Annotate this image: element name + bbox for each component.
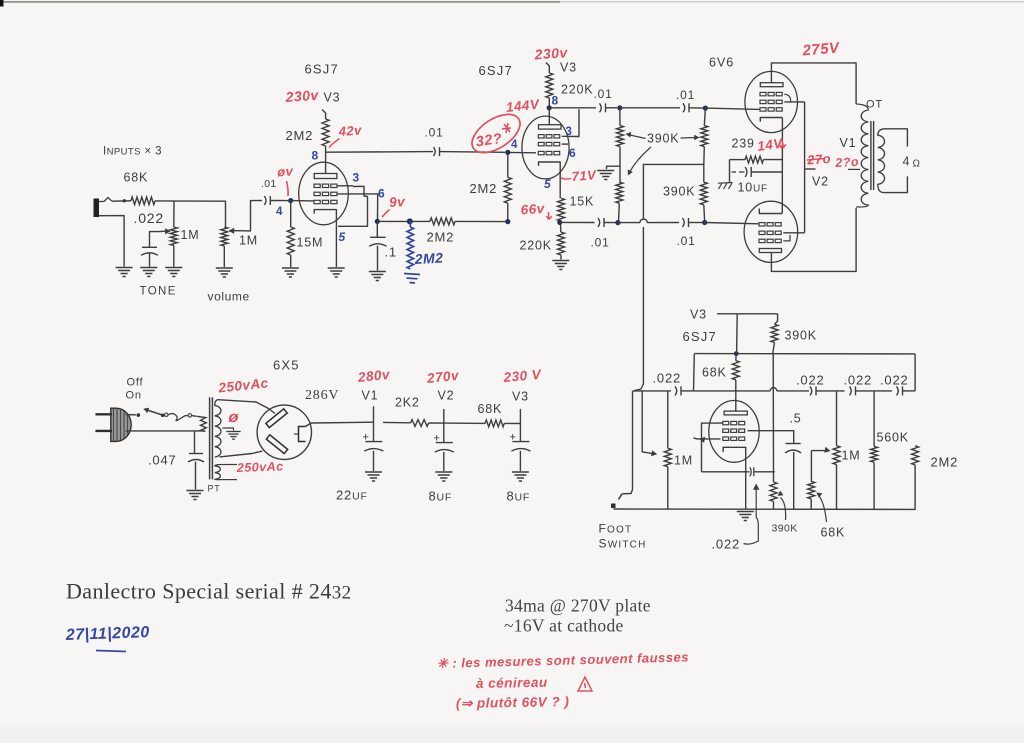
svg-text:1M: 1M (239, 234, 258, 248)
svg-text:PT: PT (208, 484, 221, 494)
svg-text:8: 8 (552, 94, 559, 108)
svg-text:68K: 68K (478, 402, 503, 416)
svg-text:~16V at cathode: ~16V at cathode (504, 616, 624, 636)
wire: V3c row1 to cathode rail (702, 423, 723, 472)
svg-text:TONE: TONE (140, 286, 177, 298)
svg-text:3: 3 (353, 171, 360, 185)
resistor 2M2 plate V3a (325, 146, 327, 174)
red circled 32? (465, 107, 526, 161)
plate bar V3c (724, 411, 747, 415)
capacitor 10UF (729, 160, 731, 172)
tube 6V6 V2 envelope (744, 201, 798, 262)
capacitor .5 (748, 431, 794, 444)
capacitor 22UF V1 (373, 422, 375, 441)
svg-text:230v: 230v (284, 87, 320, 105)
6X5 plate 1 (266, 409, 287, 428)
svg-text:4: 4 (276, 206, 283, 218)
svg-text:.022: .022 (880, 373, 909, 388)
cathode V3c (723, 447, 746, 509)
node: 2M2 junction (407, 218, 413, 224)
svg-text:V3: V3 (690, 308, 707, 322)
svg-text:2M2: 2M2 (427, 230, 455, 245)
grid row1 V3c (723, 421, 729, 424)
svg-text:volume: volume (208, 290, 250, 304)
wire: V2 plate to OT (771, 208, 856, 271)
svg-text:68K: 68K (821, 526, 846, 540)
capacitor .01 lower-left (598, 218, 600, 227)
wire: grid to tube V3b (508, 151, 536, 153)
svg-text:à cénireau: à cénireau (476, 675, 548, 691)
svg-text:68K: 68K (124, 171, 149, 185)
svg-text:+: + (363, 432, 370, 444)
svg-text:.01: .01 (676, 88, 695, 102)
resistor 220K plate V3b (546, 73, 553, 98)
grid row2 V3b (538, 142, 544, 145)
svg-text:Off: Off (127, 377, 144, 389)
wire: top to upper 6V6 (620, 107, 680, 109)
wire: grid node to tube V3a (291, 200, 314, 202)
svg-text:560K: 560K (877, 431, 909, 445)
potentiometer 1M tremolo rate (836, 391, 838, 446)
wire: switch squiggle (168, 414, 188, 421)
wire: cathode rail tremolo (702, 471, 750, 473)
svg-text:6: 6 (569, 146, 576, 160)
speaker load 4 ohm (884, 129, 908, 147)
wire: 9v node to 2M2 (377, 220, 430, 222)
capacitor .022 #3 (850, 386, 852, 395)
svg-text:275V: 275V (801, 39, 842, 59)
svg-text:2K2: 2K2 (395, 396, 420, 410)
potentiometer 390K tremolo (773, 472, 775, 482)
ground: V3 cap (512, 471, 529, 473)
svg-text:.022: .022 (134, 210, 164, 226)
grid row3 V3b (538, 151, 544, 154)
svg-text:390K: 390K (647, 132, 679, 146)
PT core (209, 397, 211, 479)
mains plug (111, 408, 131, 441)
svg-text:9v: 9v (389, 194, 407, 210)
svg-text:.01: .01 (591, 236, 610, 250)
svg-text:Danlectro Special serial #: Danlectro Special serial # 2432 (66, 579, 352, 604)
capacitor .01 coupling (264, 196, 266, 205)
grid row1 6V6 V1 (760, 92, 766, 95)
wire: V3 feed drop (736, 314, 739, 354)
wire: V3b pin6 stub (562, 143, 568, 145)
node: 68K junction (734, 351, 739, 356)
tube 6V6 V1 envelope (745, 71, 798, 132)
wire: tremolo top rail (694, 353, 915, 355)
svg-text:2M2: 2M2 (286, 128, 314, 143)
ground: V1 cap (365, 471, 382, 473)
node: bottom rail V3b (615, 220, 620, 225)
ground 777 (10UF) (729, 172, 731, 183)
svg-text:3: 3 (566, 126, 573, 138)
grid row1 V3a (314, 184, 320, 187)
ground: V3a cathode (328, 267, 345, 269)
resistor 390K tremolo plate-feed (775, 314, 778, 325)
grid row2 V3c (723, 429, 729, 432)
svg-text:.022: .022 (844, 373, 873, 388)
wire: pin6 screen V3a (337, 194, 378, 219)
resistor 2K2 (383, 421, 411, 423)
svg-text:FOOT: FOOT (599, 522, 633, 536)
ground: V2 cap (435, 471, 452, 473)
svg-text:15M: 15M (297, 236, 324, 250)
svg-text:5: 5 (339, 230, 346, 244)
svg-text:8: 8 (312, 149, 319, 163)
grid row2 6V6 V2 (759, 231, 765, 234)
node: V3a grid (288, 198, 293, 203)
ground: .047 (187, 490, 204, 492)
label .022 pointer (755, 487, 757, 518)
wire: into lower 6V6 grid (705, 223, 759, 224)
wire: rail V3b to hop (561, 221, 595, 223)
capacitor .022 tone (142, 246, 157, 248)
node: jack-68K junction (123, 199, 126, 202)
tube 6SJ7 V3a envelope (299, 162, 349, 225)
svg-text:68K: 68K (702, 366, 727, 380)
PT HV secondary (215, 400, 221, 457)
grid row1 6V6 V2 (759, 223, 765, 226)
svg-text:1M: 1M (181, 228, 200, 242)
svg-text:5: 5 (544, 177, 551, 191)
svg-text:22UF: 22UF (336, 488, 368, 503)
node: lower 6V6 grid (702, 220, 707, 225)
wire: tremolo bottom rail (614, 465, 916, 510)
grid row2 6V6 V1 (760, 100, 766, 103)
wire: 390K node drop to cathode (772, 354, 774, 472)
svg-text:390K: 390K (785, 329, 817, 343)
capacitor .01 interstage (434, 147, 436, 156)
power switch lever (146, 410, 163, 416)
svg-text:V2: V2 (438, 389, 455, 403)
wire: cap row mid (694, 390, 771, 392)
ground: tremolo cathode (737, 511, 754, 513)
svg-text:INPUTS × 3: INPUTS × 3 (103, 146, 162, 158)
svg-text:Ω: Ω (913, 159, 921, 170)
svg-text:2M2: 2M2 (931, 455, 959, 470)
node: divider left top (617, 105, 622, 110)
svg-text:.5: .5 (790, 412, 802, 426)
svg-text:+: + (510, 432, 517, 444)
resistor 68K tremolo plate (732, 361, 739, 380)
foot switch contact (622, 391, 633, 494)
plate bar V3a (314, 174, 337, 179)
svg-text:286V: 286V (305, 388, 339, 403)
svg-text:V3: V3 (512, 390, 529, 404)
svg-text:V1: V1 (840, 136, 857, 150)
cathode 6V6 V2 (759, 209, 782, 214)
ground: tone pot (165, 267, 182, 269)
node: upper 6V6 grid (703, 106, 708, 111)
capacitor .022 #2 (810, 386, 812, 395)
resistor 15M grid leak (290, 201, 292, 227)
wire: jack tip to 68K (112, 200, 131, 202)
resistor 68K filter (444, 422, 485, 424)
node: V3b cathode rail (557, 220, 562, 225)
grid row3 6V6 V2 (759, 239, 765, 242)
PT filament winding (215, 465, 222, 480)
svg-text:10UF: 10UF (738, 181, 768, 195)
svg-text:4: 4 (511, 139, 518, 151)
svg-text:.022: .022 (796, 373, 825, 388)
wire: V3b plate to cap (549, 107, 596, 109)
svg-text:2M2: 2M2 (413, 250, 444, 268)
wire: 6X5 cathode out (306, 422, 374, 426)
OT core (870, 121, 872, 190)
wire: V3 feed line (717, 313, 778, 315)
svg-text:8UF: 8UF (507, 489, 531, 504)
svg-text:6SJ7: 6SJ7 (479, 63, 513, 78)
svg-text:6V6: 6V6 (709, 56, 734, 70)
svg-text:6X5: 6X5 (273, 358, 300, 373)
svg-text:2?o: 2?o (834, 155, 859, 170)
capacitor .01 upper-right (683, 103, 685, 112)
svg-text:(⇒ plutôt 66V ? ): (⇒ plutôt 66V ? ) (456, 694, 570, 711)
svg-text:V2: V2 (812, 175, 829, 189)
ground: 15M (282, 267, 299, 269)
svg-text:66v: 66v (520, 201, 546, 218)
wire: HV top to 6X5 plate (218, 400, 275, 414)
resistor 560K (873, 391, 875, 447)
svg-text:.022: .022 (712, 537, 741, 552)
6X5 cathode (299, 427, 306, 442)
capacitor .01 upper-left (600, 103, 602, 112)
svg-text:V3: V3 (560, 61, 577, 75)
resistor 2M2 tremolo (912, 446, 919, 465)
cathode 6V6 V1 (760, 118, 782, 122)
svg-text:1M: 1M (674, 454, 693, 468)
node: V3b grid (505, 150, 510, 155)
switch dot (137, 413, 141, 417)
grid row2 V3a (314, 192, 320, 195)
blue added resistor 2M2 (407, 227, 413, 269)
potentiometer 1M tremolo depth (667, 391, 669, 448)
resistor 390K left-lower (619, 166, 621, 182)
svg-text:34ma @ 270V plate: 34ma @ 270V plate (505, 596, 651, 616)
wire: rail right drop (914, 354, 916, 391)
resistor 220K cathode (560, 222, 562, 232)
capacitor .022 #1 (675, 386, 677, 395)
grid row3 6V6 V1 (760, 108, 766, 111)
cathode V3a (314, 210, 336, 267)
OT center tap (848, 168, 860, 170)
svg-text:.01: .01 (425, 126, 444, 140)
node: V3b grid bottom (505, 219, 510, 224)
ground: volume pot (216, 267, 233, 269)
tube 6SJ7 V3b envelope (522, 116, 569, 179)
wire: HV bottom to 6X5 plate (220, 451, 263, 457)
capacitor .047 (194, 432, 196, 454)
capacitor .01 lower-right (683, 218, 685, 227)
wire: jack sleeve to ground (99, 216, 124, 267)
capacitor .022 tremolo cathode (750, 467, 751, 476)
wire: V3a plate branch (326, 151, 433, 154)
tube 6SJ7 V3c envelope (709, 401, 759, 463)
wire: pin3 suppressor V3a (337, 185, 353, 187)
ground: tone cap (140, 267, 157, 269)
svg-text:.022: .022 (653, 371, 682, 386)
svg-text:4: 4 (903, 155, 911, 169)
wire: into upper 6V6 grid (705, 108, 759, 109)
potentiometer 1M volume (221, 227, 228, 246)
wire: rail with hop (618, 222, 640, 224)
svg-text:6SJ7: 6SJ7 (305, 62, 339, 77)
ground: 220K (552, 260, 569, 262)
wire: cap row left (633, 390, 671, 392)
OT primary winding (856, 104, 868, 207)
ground: input jack (116, 267, 133, 269)
resistor 390K right-upper (704, 108, 705, 126)
wire: V2 row3 hook (783, 235, 790, 241)
6X5 plate 2 (266, 435, 287, 454)
potentiometer 1M tone (173, 201, 175, 227)
wire: V3b pin3 to plate wire (562, 109, 579, 136)
wire: 2M2 to V3b grid node (455, 220, 508, 222)
svg-text:V1: V1 (362, 389, 379, 403)
wire: V3c grid arrow (694, 438, 721, 439)
grid row1 V3b (538, 135, 544, 138)
capacitor .022 #4 (897, 386, 899, 395)
screens line V1-V2 (804, 102, 806, 233)
PT primary winding (197, 416, 207, 431)
node: V3b plate (547, 105, 552, 110)
wire: V2 screen lead (783, 232, 804, 234)
svg-text:390K: 390K (663, 185, 695, 199)
input jack J1 (94, 199, 100, 218)
svg-text:220K: 220K (520, 239, 552, 253)
svg-text:71V: 71V (571, 167, 597, 184)
capacitor .1 cathode bypass (376, 221, 378, 237)
OT secondary winding (878, 129, 885, 193)
svg-text:On: On (126, 390, 142, 402)
svg-text:15K: 15K (570, 195, 595, 209)
wire: 68K to volume pot (155, 201, 226, 227)
svg-text:.01: .01 (594, 87, 613, 101)
plate bar 6V6 V2 (759, 249, 781, 253)
svg-text:27|11|2020: 27|11|2020 (65, 624, 150, 644)
svg-text:.01: .01 (677, 234, 696, 248)
wire: V1 screen lead (784, 101, 804, 103)
svg-text:øv: øv (277, 163, 294, 179)
svg-text:V3: V3 (324, 91, 341, 105)
grid row3 V3c (723, 437, 729, 440)
svg-text:6SJ7: 6SJ7 (683, 329, 717, 344)
resistor 68K input (131, 197, 155, 205)
wire: rail left drop (693, 354, 696, 391)
resistor 2M2 grid V3b (507, 152, 509, 177)
node: 9v node (375, 219, 380, 224)
grid row3 V3a (314, 200, 320, 203)
potentiometer 68K tremolo (810, 451, 812, 482)
capacitor 8UF V3 (519, 409, 521, 424)
svg-text:1M: 1M (842, 449, 861, 463)
wire: V1 row1 hook (784, 94, 790, 102)
wire: cathode bus V1-V2 (781, 118, 783, 214)
resistor 390K right-lower (700, 182, 707, 205)
plate bar V3b (539, 125, 562, 129)
wire: junction to tremolo feed (643, 164, 703, 218)
svg-text:239: 239 (732, 137, 755, 151)
resistor 2M2 horizontal (430, 218, 455, 225)
wire: V1 plate to B+ (771, 63, 856, 104)
svg-text:8UF: 8UF (429, 489, 453, 504)
ground: .1 cap (369, 271, 386, 273)
tube 6X5 envelope (257, 405, 311, 459)
svg-text:.1: .1 (385, 245, 397, 260)
svg-text:250vAc: 250vAc (236, 459, 284, 475)
svg-text:+: + (434, 433, 441, 445)
ground: divider left (597, 170, 614, 172)
wire: plug lower to transformer (126, 430, 206, 432)
PT center tap ground (223, 428, 234, 431)
svg-text:390K: 390K (772, 523, 798, 535)
svg-text:42v: 42v (337, 122, 362, 139)
wire: plug to switch (126, 414, 136, 416)
capacitor 8UF V2 (443, 409, 445, 423)
resistor 15K cathode (558, 198, 565, 221)
screen tick V2 (805, 168, 816, 170)
svg-text:SWITCH: SWITCH (599, 537, 647, 551)
svg-text:220K: 220K (561, 83, 593, 97)
svg-text:2M2: 2M2 (470, 181, 498, 196)
plate bar 6V6 V1 (760, 83, 783, 87)
svg-text:6: 6 (378, 187, 385, 201)
svg-text:.01: .01 (261, 178, 277, 190)
wire: wiper drop 1M left (642, 391, 653, 454)
svg-text:.047: .047 (148, 453, 177, 468)
resistor 390K left-upper (619, 108, 621, 126)
resistor 239 cathode (730, 159, 746, 161)
cathode V3b (539, 162, 561, 198)
